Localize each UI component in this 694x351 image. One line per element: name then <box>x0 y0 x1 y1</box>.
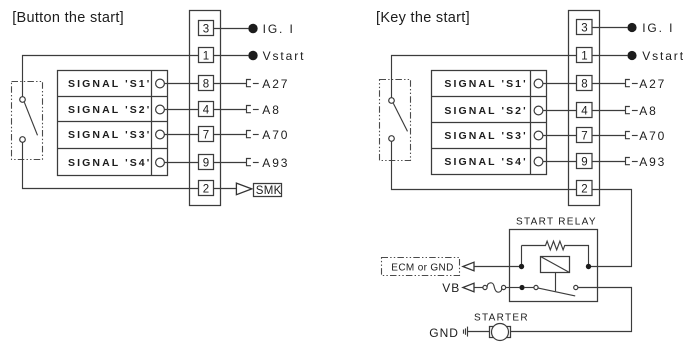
svg-text:SIGNAL 'S4': SIGNAL 'S4' <box>68 157 151 169</box>
SMK box <box>254 184 282 197</box>
dash A8 <box>632 110 638 112</box>
svg-text:4: 4 <box>203 104 210 116</box>
svg-text:7: 7 <box>203 129 209 141</box>
pin 7 box <box>199 127 214 142</box>
relay coil armature tap <box>555 273 557 292</box>
signal block U1 row line 1 <box>58 96 168 98</box>
dash A93 <box>253 162 259 164</box>
svg-text:SIGNAL 'S1': SIGNAL 'S1' <box>444 78 527 90</box>
terminal circle S4 <box>534 157 543 166</box>
terminal circle S1 <box>156 79 165 88</box>
wire pin 3 to IG. I <box>592 27 627 29</box>
svg-text:VB: VB <box>442 281 460 295</box>
dash A93 <box>632 161 638 163</box>
svg-text:A8: A8 <box>639 104 657 118</box>
switch SW1 bottom contact <box>20 137 26 143</box>
pin 7 box <box>577 128 593 143</box>
ECM or GND box (dash-dot) <box>382 258 460 276</box>
terminal bracket A93 <box>247 159 251 166</box>
terminal bracket A70 <box>247 131 251 138</box>
wire S3 to pin 7 <box>543 135 577 137</box>
svg-text:A27: A27 <box>639 77 666 91</box>
node IG. I <box>627 23 636 32</box>
svg-text:1: 1 <box>581 50 587 62</box>
dash A8 <box>253 109 259 111</box>
svg-text:4: 4 <box>581 105 588 117</box>
svg-text:A70: A70 <box>262 128 289 142</box>
pin 1 box <box>199 48 214 63</box>
arrow to ECM or GND <box>463 262 474 271</box>
node IG. I <box>248 24 257 33</box>
terminal bracket A93 <box>626 158 630 165</box>
wire pin 3 to IG. I <box>214 28 249 30</box>
pin 2 box <box>199 181 214 196</box>
pin 8 box <box>577 76 593 91</box>
wire fuse to contact node <box>506 287 520 289</box>
node coil left <box>519 264 524 269</box>
svg-text:SIGNAL 'S2': SIGNAL 'S2' <box>68 104 151 116</box>
signal block U2 row line 3 <box>432 148 547 150</box>
wire Vstart: pin 1 to switch <box>23 56 199 97</box>
switch SW1 top contact <box>20 97 26 103</box>
arrow to VB <box>463 283 474 292</box>
wire pin 1 to Vstart <box>214 55 249 57</box>
wire pin 2 to relay coil node <box>589 190 632 267</box>
svg-text:STARTER: STARTER <box>474 312 529 323</box>
svg-text:A8: A8 <box>262 103 280 117</box>
relay coil L1 diagonal <box>541 257 570 273</box>
svg-text:SMK: SMK <box>256 185 282 197</box>
switch enclosure SW1 (dash-dot box) <box>12 82 43 160</box>
terminal bracket A70 <box>626 132 630 139</box>
terminal circle S1 <box>534 79 543 88</box>
terminal bracket A8 <box>626 107 630 114</box>
fuse F1 left terminal <box>483 285 487 289</box>
wire pin 2 to SMK buffer <box>214 188 237 190</box>
svg-text:8: 8 <box>581 78 587 90</box>
pin 1 box <box>577 48 593 63</box>
svg-text:IG. I: IG. I <box>263 22 295 36</box>
signal block U1 divider column <box>151 71 153 176</box>
pin 2 box <box>577 181 593 196</box>
svg-text:SIGNAL 'S3': SIGNAL 'S3' <box>444 130 527 142</box>
connector J1 outline <box>190 11 221 206</box>
svg-text:GND: GND <box>429 326 459 340</box>
dash A70 <box>632 135 638 137</box>
wire contact to starter motor <box>511 288 632 332</box>
wire pin to A8 <box>592 110 625 112</box>
starter motor M1 frame <box>490 327 511 338</box>
relay contact left <box>534 285 538 289</box>
pin 9 box <box>577 154 593 169</box>
terminal circle S3 <box>534 131 543 140</box>
svg-text:[Button the start]: [Button the start] <box>12 10 124 26</box>
svg-text:ECM or GND: ECM or GND <box>391 263 453 274</box>
svg-text:9: 9 <box>581 156 587 168</box>
wire node to contact <box>525 287 534 289</box>
terminal circle S2 <box>534 106 543 115</box>
signal block U2 row line 2 <box>432 122 547 124</box>
signal block U1 row line 2 <box>58 121 168 123</box>
svg-text:3: 3 <box>203 23 209 35</box>
signal block U1 row line 3 <box>58 148 168 150</box>
wire pin to A93 <box>214 162 247 164</box>
signal block U2 row line 1 <box>432 96 547 98</box>
terminal circle S4 <box>156 158 165 167</box>
wire pin to A27 <box>214 83 247 85</box>
fuse F1 element <box>487 283 502 292</box>
starter motor M1 body <box>492 324 509 341</box>
ground symbol <box>464 327 468 337</box>
buffer triangle to SMK <box>236 183 251 195</box>
dash A27 <box>632 83 638 85</box>
relay coil L1 box <box>541 257 570 273</box>
wire S2 to pin 4 <box>164 109 198 111</box>
wire S2 to pin 4 <box>543 110 577 112</box>
connector J2 outline <box>569 11 600 206</box>
svg-text:9: 9 <box>203 157 209 169</box>
switch SW1 blade <box>24 102 37 135</box>
terminal bracket A27 <box>626 80 630 87</box>
svg-text:[Key the start]: [Key the start] <box>376 10 470 26</box>
dash A27 <box>253 83 259 85</box>
wire pin to A70 <box>214 134 247 136</box>
switch enclosure SW2 (dash-dot box) <box>380 80 411 161</box>
terminal bracket A27 <box>247 80 251 87</box>
switch SW2 bottom contact <box>389 136 395 142</box>
pin 9 box <box>199 155 214 170</box>
switch SW2 blade <box>393 103 407 131</box>
svg-text:A70: A70 <box>639 129 666 143</box>
node Vstart <box>248 51 257 60</box>
wire pin to A27 <box>592 83 625 85</box>
wire pin to A70 <box>592 135 625 137</box>
svg-text:7: 7 <box>581 130 587 142</box>
svg-text:Vstart: Vstart <box>263 49 306 63</box>
wire pin to A8 <box>214 109 247 111</box>
svg-text:SIGNAL 'S3': SIGNAL 'S3' <box>68 129 151 141</box>
pin 3 box <box>577 20 593 35</box>
svg-text:A27: A27 <box>262 77 289 91</box>
svg-text:A93: A93 <box>639 155 666 169</box>
terminal circle S3 <box>156 130 165 139</box>
wire Vstart: pin 1 to switch <box>392 56 577 98</box>
node coil right <box>586 264 591 269</box>
wire S4 to pin 9 <box>164 162 198 164</box>
svg-text:Vstart: Vstart <box>642 49 685 63</box>
wire S1 to pin 8 <box>543 83 577 85</box>
svg-text:3: 3 <box>581 22 587 34</box>
relay contact blade <box>538 288 575 296</box>
pin 4 box <box>577 103 593 118</box>
wire S3 to pin 7 <box>164 134 198 136</box>
node contact common <box>519 285 524 290</box>
wire ground to starter motor <box>468 331 490 333</box>
terminal bracket A8 <box>247 106 251 113</box>
svg-text:1: 1 <box>203 50 209 62</box>
signal block U2 divider column <box>530 71 532 175</box>
relay contact right <box>574 285 578 289</box>
pin 8 box <box>199 76 214 91</box>
svg-text:A93: A93 <box>262 156 289 170</box>
svg-text:SIGNAL 'S4': SIGNAL 'S4' <box>444 156 527 168</box>
svg-text:SIGNAL 'S2': SIGNAL 'S2' <box>444 105 527 117</box>
pin 4 box <box>199 102 214 117</box>
switch SW2 top contact <box>389 98 395 104</box>
svg-text:2: 2 <box>581 183 587 195</box>
wire switch to pin 2 <box>23 142 199 188</box>
wire pin to A93 <box>592 161 625 163</box>
wire switch to pin 2 <box>392 141 577 189</box>
relay K1 outline <box>510 230 598 302</box>
svg-text:START RELAY: START RELAY <box>516 217 597 228</box>
wire S4 to pin 9 <box>543 161 577 163</box>
svg-text:8: 8 <box>203 78 209 90</box>
dash A70 <box>253 134 259 136</box>
terminal circle S2 <box>156 105 165 114</box>
pin 3 box <box>199 21 214 36</box>
wire ECM arrow to coil node <box>474 266 519 268</box>
resistor R1 <box>522 241 589 266</box>
svg-text:SIGNAL 'S1': SIGNAL 'S1' <box>68 78 151 90</box>
svg-text:2: 2 <box>203 183 209 195</box>
wire S1 to pin 8 <box>164 83 198 85</box>
wire pin 1 to Vstart <box>592 55 627 57</box>
signal block U2 outline <box>432 71 547 175</box>
signal block U1 outline <box>58 71 168 176</box>
relay coil left riser <box>521 246 523 267</box>
svg-text:IG. I: IG. I <box>642 21 674 35</box>
wire VB arrow to fuse <box>474 287 483 289</box>
node Vstart <box>627 51 636 60</box>
fuse F1 right terminal <box>502 285 506 289</box>
